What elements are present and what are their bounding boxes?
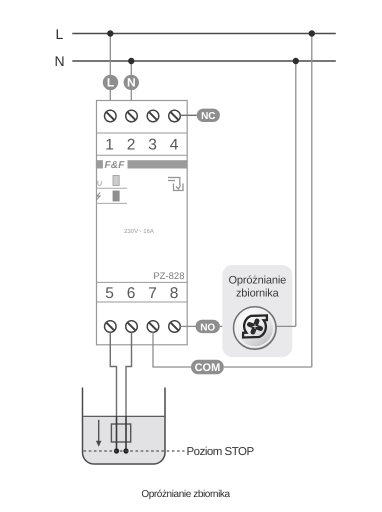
svg-text:L: L [107, 76, 114, 90]
svg-text:1: 1 [105, 137, 114, 154]
svg-text:NC: NC [201, 111, 215, 122]
svg-text:zbiornika: zbiornika [236, 288, 280, 300]
svg-text:Poziom STOP: Poziom STOP [187, 446, 255, 458]
svg-text:N: N [127, 76, 136, 90]
svg-text:8: 8 [170, 285, 179, 302]
svg-text:230V~ 16A: 230V~ 16A [124, 228, 154, 235]
svg-text:U: U [97, 180, 102, 187]
svg-text:PZ-828: PZ-828 [153, 271, 184, 282]
svg-text:2: 2 [127, 137, 136, 154]
svg-text:NO: NO [200, 322, 215, 333]
svg-text:4: 4 [170, 137, 179, 154]
svg-text:F&F: F&F [105, 160, 126, 171]
svg-text:L: L [56, 26, 64, 42]
svg-text:COM: COM [195, 362, 221, 374]
svg-text:N: N [55, 53, 65, 69]
svg-text:Opróżnianie: Opróżnianie [228, 275, 286, 287]
svg-text:5: 5 [105, 285, 114, 302]
svg-text:Opróżnianie zbiornika: Opróżnianie zbiornika [141, 489, 230, 500]
svg-text:7: 7 [148, 285, 157, 302]
svg-text:3: 3 [148, 137, 157, 154]
svg-text:6: 6 [127, 285, 136, 302]
